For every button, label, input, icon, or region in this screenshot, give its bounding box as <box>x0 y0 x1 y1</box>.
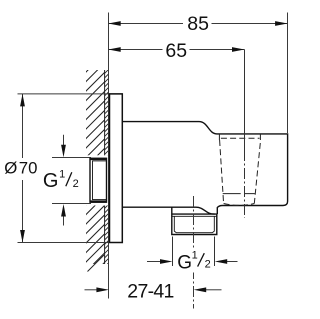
wall finish band boundary line left <box>104 70 106 264</box>
extension line top for dia 70 <box>18 93 123 95</box>
wall hatching coarse <box>75 43 115 292</box>
label G 1/2 left <box>43 169 79 192</box>
svg-text:Ø: Ø <box>4 158 17 177</box>
svg-text:65: 65 <box>165 40 187 62</box>
right extension line for dim 85 <box>287 13 289 134</box>
extension line bottom for dia 70 <box>18 242 123 244</box>
cone centre line <box>244 50 246 219</box>
svg-text:27-41: 27-41 <box>127 281 173 303</box>
label G 1/2 bottom <box>177 248 211 274</box>
extension lines bottom G1/2 <box>173 237 215 267</box>
svg-text:G: G <box>43 170 59 192</box>
svg-text:2: 2 <box>73 178 79 190</box>
svg-text:85: 85 <box>187 13 209 35</box>
wall hole upper edge / extension line G1/2 <box>52 157 91 159</box>
dimension 27-41 <box>85 281 222 303</box>
body top outline <box>122 122 287 215</box>
svg-text:2: 2 <box>205 258 211 270</box>
body bottom left outline <box>122 207 214 214</box>
svg-text:G: G <box>177 252 192 273</box>
dimension 85 <box>108 13 287 35</box>
dimension 65 <box>108 40 244 62</box>
wall surface line / extension line for dims 85, 65 and 27-41 <box>108 13 110 299</box>
wall hole lower edge / extension line G1/2 <box>52 203 91 205</box>
svg-text:1: 1 <box>59 169 65 181</box>
inlet nipple G1/2 behind wall <box>90 158 107 202</box>
dimension dia 70 <box>4 94 37 243</box>
wall plate flange <box>110 94 123 243</box>
dimension G1/2 bottom arrows <box>147 259 238 264</box>
svg-text:70: 70 <box>19 158 38 177</box>
handshower cone hidden (dashed) <box>219 134 260 205</box>
outlet centre line <box>193 196 195 309</box>
wall finish dense hatching <box>100 65 113 272</box>
stray hatch line below wall bottom <box>88 255 105 272</box>
dimension G1/2 left arrows <box>61 135 66 226</box>
outlet nipple G1/2 <box>172 207 217 234</box>
svg-text:1: 1 <box>192 249 198 261</box>
